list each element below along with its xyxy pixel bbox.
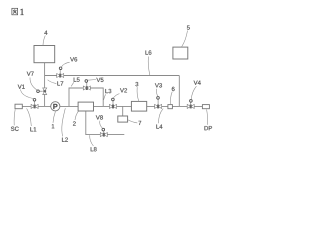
label L3 [105,89,111,93]
wire: bypass loop L5 [69,88,103,106]
wire: drop to box7 [122,106,124,116]
wire: L8 from box2 down and right [86,111,125,135]
wire: main line SC to DP [22,105,202,107]
wire: L6 branch horizontal [45,75,180,77]
label SC [11,127,19,131]
valve V4 [187,100,194,109]
wire: L6 vertical down to main line [178,76,180,107]
leader for label V2 [113,94,119,99]
label L4 [156,125,162,129]
leader for label V1 [21,90,34,99]
label V8 [96,115,103,119]
box 7 [118,116,128,122]
leader for label 4 [43,36,45,46]
label 5 [187,26,190,30]
leader for label V4 [191,86,196,99]
leader for label 1 [53,112,55,123]
leader for label L4 [159,109,164,124]
leader for label L2 [62,108,66,136]
label L2 [62,138,68,142]
leader for label V3 [156,89,157,96]
label V5 [96,78,103,82]
leader for label V7 [30,78,37,91]
label V2 [120,88,127,92]
valve V7 (vertical) [37,88,47,95]
leader for label L6 [148,57,150,76]
label L1 [30,127,36,131]
leader for label SC [14,109,15,125]
valve V1 [31,99,38,109]
leader for label L5 [71,82,74,86]
leader for label V8 [100,121,103,129]
label 4 [44,31,47,35]
wire: L7 vertical from box4 to main line [44,63,46,107]
label V7 [27,72,34,76]
label L7 [57,81,63,85]
label L5 [74,78,80,82]
valve V2 [110,98,117,108]
terminal SC [15,104,22,109]
box 3 [131,101,146,111]
leader for label V6 [61,62,69,67]
leader for label L7 [48,80,57,84]
label 1 [52,124,55,128]
valve V3 [155,97,162,109]
leader for label 2 [75,111,78,120]
label V3 [155,83,162,87]
leader for label L8 [90,135,94,146]
terminal DP [202,105,209,109]
label DP [205,126,213,130]
component square 6 [168,105,173,109]
valve V6 [57,67,64,78]
label 7 [139,121,142,125]
box 2 [78,102,93,111]
label L6 [146,50,152,54]
label 2 [73,121,76,125]
leader for label DP [206,109,209,124]
figure title 図1 glyph [12,8,18,15]
leader for label 5 [182,31,188,47]
leader for label L3 [104,94,106,100]
label 3 [135,82,138,86]
leader for label V5 [88,79,96,82]
label 6 [172,87,175,91]
label V6 [70,57,77,61]
valve V5 [83,80,90,90]
figure title number 1 [20,9,23,15]
label V4 [194,81,201,85]
leader for label 7 [128,120,137,123]
label V1 [18,85,25,89]
label L8 [91,147,97,151]
valve V8 [100,128,107,136]
pump P1 [51,102,60,111]
leader for label L1 [27,108,32,126]
box 4 [34,46,55,63]
leader for label 6 [171,92,173,105]
box 5 [173,47,188,59]
leader for label 3 [137,87,139,101]
